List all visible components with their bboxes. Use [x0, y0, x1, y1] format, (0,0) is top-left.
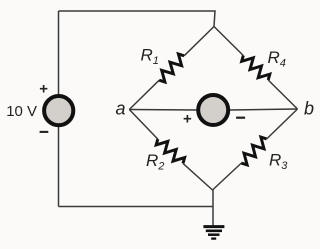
- svg-text:10 V: 10 V: [6, 103, 37, 120]
- resistor R4: [242, 56, 270, 81]
- galvanometer G: [198, 95, 228, 125]
- wire galvanometer to node b: [229, 109, 298, 110]
- svg-text:+: +: [183, 110, 192, 127]
- wire arm node a to R2: [129, 110, 158, 140]
- ground: [203, 227, 224, 239]
- wire left lower (source down to bottom-left corner): [58, 126, 60, 207]
- wire bottom node to ground: [212, 190, 214, 226]
- wire left upper (top-left corner down to source): [58, 11, 60, 95]
- wire R4 to node b: [268, 80, 297, 109]
- wire bottom node to R3: [213, 163, 242, 190]
- source minus terminal: [40, 131, 49, 133]
- resistor R3: [241, 137, 266, 165]
- resistor R2: [156, 139, 184, 163]
- wire R3 to node b: [267, 109, 298, 139]
- source V1 10V: [44, 96, 73, 125]
- svg-text:b: b: [304, 99, 314, 119]
- wire bottom from bottom-left corner to ground node: [59, 206, 214, 208]
- wire top node to R4: [214, 27, 243, 56]
- svg-text:+: +: [39, 81, 48, 98]
- resistor R1: [159, 54, 184, 82]
- svg-text:a: a: [116, 98, 126, 118]
- wire R2 to bottom node: [183, 163, 213, 190]
- wire R1 to top node: [184, 27, 214, 56]
- wire top from top-left corner to top node: [59, 11, 216, 27]
- wire arm node a to R1: [129, 80, 159, 109]
- wire node a to galvanometer: [129, 109, 198, 112]
- galvanometer minus label: [236, 117, 245, 119]
